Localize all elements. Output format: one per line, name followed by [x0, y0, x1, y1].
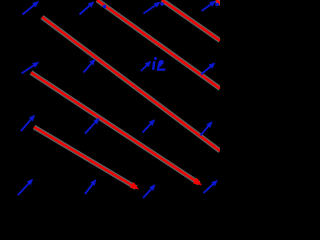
node arrow blue r3c1 [21, 117, 33, 131]
wire red line C1 halo [34, 127, 136, 188]
node arrow blue r1c1 [23, 3, 37, 15]
node arrow blue r4c3 [143, 187, 154, 199]
node arrow blue r4c4 [204, 182, 216, 193]
wire red line E1 [97, 0, 220, 89]
node arrow blue r3c3 [143, 122, 154, 133]
wire red line E2 halo [162, 0, 220, 41]
wire red line B1 halo [31, 73, 199, 184]
node arrow blue r2c3 [141, 63, 149, 71]
wire red line E3 halo [216, 0, 221, 4]
node arrow blue r1c3 [144, 4, 159, 14]
wire red line A1 [42, 17, 220, 151]
node arrow blue r3c2 [85, 120, 98, 134]
node arrow blue r2c1 [22, 64, 37, 74]
label i2 at r2c3 [152, 57, 166, 71]
label dot r1c4 [215, 3, 219, 7]
node arrow blue r1c4 [202, 3, 214, 12]
wire red line A1 halo [42, 17, 220, 151]
node arrow blue r1c2 [80, 4, 93, 15]
wire red line E2 [162, 0, 220, 41]
node arrow blue r2c4 [201, 65, 213, 75]
arrow red B1 [31, 73, 199, 184]
node arrow blue r4c2 [85, 182, 95, 195]
wire red line E3 [216, 0, 221, 4]
arrow red C1 [34, 127, 136, 188]
node arrow blue r2c2 [84, 61, 94, 73]
wire red line E1 halo [97, 0, 220, 89]
label dot r1c3 [160, 2, 164, 6]
node arrow blue r4c1 [18, 181, 31, 195]
label dot r1c2 [103, 5, 107, 9]
node arrow blue r3c4 [201, 124, 211, 136]
